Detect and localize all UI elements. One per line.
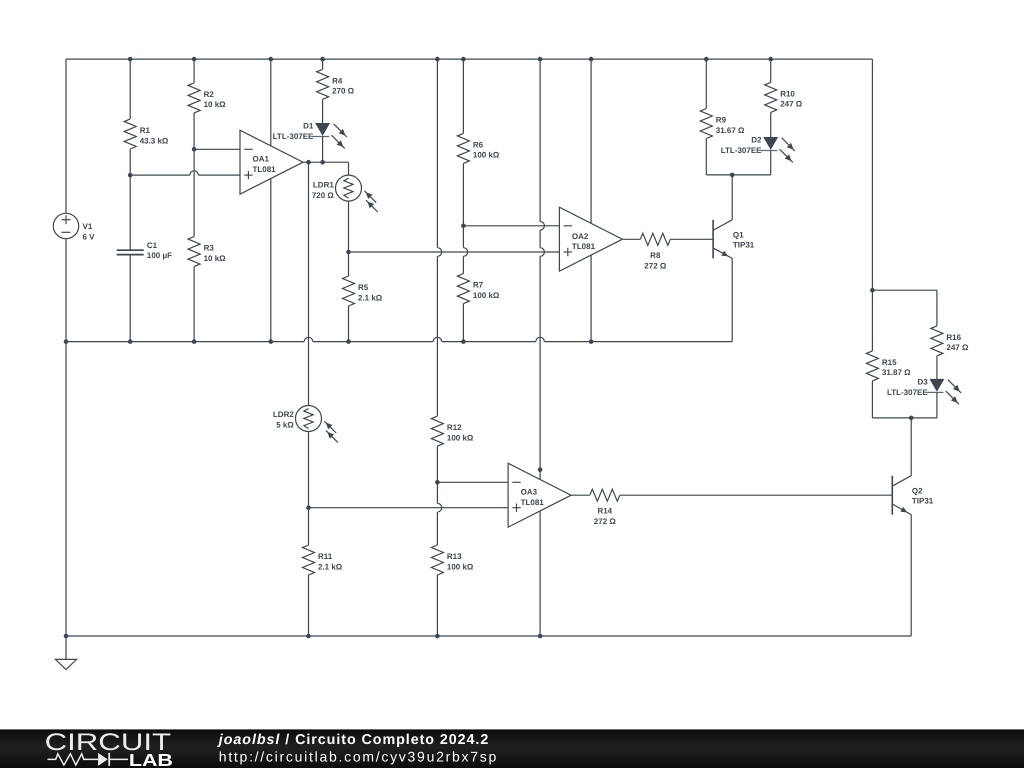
wire c7 hop over OA3 plus wire	[437, 503, 441, 512]
wire hop over R2R3 column	[190, 171, 199, 175]
svg-text:R16: R16	[946, 333, 961, 342]
wire OA3 inverting input	[437, 481, 508, 483]
wire mid rail segment 3	[442, 341, 536, 343]
resistor R4	[317, 69, 329, 99]
OA2 noninverting glyph	[564, 251, 572, 253]
svg-text:R8: R8	[650, 251, 661, 260]
wire mid rail segment 2	[313, 341, 433, 343]
wire hop over node at x308	[304, 337, 313, 341]
node R6-R7 junction	[461, 224, 466, 229]
svg-text:Q2: Q2	[912, 486, 923, 495]
svg-text:100 µF: 100 µF	[147, 251, 172, 260]
resistor R11	[303, 545, 315, 575]
wire C1 bottom lead	[129, 255, 131, 342]
wire R2-R3 link	[193, 113, 195, 237]
OA3 noninverting glyph	[512, 507, 520, 509]
wire c9 hop over OA2 minus wire	[540, 222, 544, 231]
OA2 inverting glyph	[564, 225, 572, 227]
wire OA1 noninverting input seg2	[198, 174, 240, 176]
svg-text:R10: R10	[780, 89, 795, 98]
node top rail R1	[128, 57, 133, 62]
wire R15-R16 top link	[872, 289, 937, 291]
resistor R9	[700, 109, 712, 139]
svg-text:R4: R4	[332, 76, 343, 85]
wire D3 cathode lead	[936, 392, 938, 418]
resistor R3	[188, 237, 200, 267]
photoresistor LDR2	[296, 406, 322, 432]
node OA2 supply bottom junction	[589, 339, 594, 344]
wire c8 hop over OA2 plus wire	[463, 248, 467, 257]
node top rail R10	[768, 57, 773, 62]
wire c7 to R12	[436, 256, 438, 416]
LDR2 light arrows	[324, 421, 336, 433]
wire R6R7 link upper	[462, 226, 464, 248]
svg-text:10 kΩ: 10 kΩ	[204, 100, 227, 109]
node mid rail left	[64, 339, 69, 344]
LED D3	[930, 379, 943, 390]
node c9 bottom junction	[538, 634, 543, 639]
V1 minus symbol	[62, 231, 71, 233]
op-amp OA3	[508, 463, 571, 527]
svg-text:720 Ω: 720 Ω	[312, 191, 335, 200]
OA3 inverting glyph	[512, 481, 520, 483]
node Q2 collector junction	[909, 416, 914, 421]
wire c9 segment 2	[539, 230, 541, 248]
node top rail c9	[538, 57, 543, 62]
V1 plus symbol	[62, 219, 71, 221]
D2 label leader	[760, 150, 764, 152]
resistor R12	[431, 416, 443, 446]
node R11 bottom junction	[306, 634, 311, 639]
wire OA2 noninverting input	[349, 251, 560, 253]
node bottom rail left	[64, 634, 69, 639]
wire R1 bottom lead	[129, 149, 131, 175]
svg-text:LDR1: LDR1	[313, 181, 334, 190]
svg-text:TIP31: TIP31	[733, 241, 755, 250]
D3 label leader	[927, 391, 931, 393]
wire OA3 noninverting input	[309, 507, 509, 509]
ground symbol	[55, 659, 76, 669]
svg-text:D2: D2	[751, 136, 762, 145]
svg-text:R2: R2	[204, 90, 215, 99]
wire R6 bottom lead	[462, 163, 464, 225]
LDR1 light arrows	[364, 191, 376, 203]
D3 emission arrows	[948, 380, 961, 393]
wire hop over node at x437	[433, 337, 442, 341]
svg-text:R7: R7	[473, 281, 484, 290]
svg-text:OA3: OA3	[521, 488, 538, 497]
wire column c7 upper	[436, 59, 438, 248]
wire mid rail segment 1	[66, 341, 304, 343]
svg-text:R12: R12	[447, 423, 462, 432]
logo diode bar	[108, 753, 110, 766]
svg-text:LTL-307EE: LTL-307EE	[887, 388, 928, 397]
node R2-R3 junction	[192, 147, 197, 152]
wire R9-D2 bottom	[706, 174, 770, 176]
wire R3 bottom lead	[193, 267, 195, 342]
svg-text:100 kΩ: 100 kΩ	[447, 433, 474, 442]
svg-text:V1: V1	[83, 222, 93, 231]
wire LDR2 bottom lead	[308, 432, 310, 546]
wire top supply rail	[66, 58, 872, 60]
D1 label leader	[312, 136, 316, 138]
wire R2 top lead	[193, 59, 195, 83]
resistor R13	[431, 545, 443, 575]
resistor R2	[188, 83, 200, 113]
wire right rail down	[871, 59, 873, 351]
wire OA1 output down segment	[308, 162, 310, 405]
wire R4 top lead	[322, 59, 324, 69]
wire D1 cathode lead	[322, 136, 324, 162]
svg-text:D3: D3	[917, 378, 928, 387]
svg-text:247 Ω: 247 Ω	[946, 343, 969, 352]
svg-text:http://circuitlab.com/cyv39u2r: http://circuitlab.com/cyv39u2rbx7sp	[219, 749, 497, 765]
svg-text:LTL-307EE: LTL-307EE	[721, 146, 762, 155]
wire R12-junction link	[436, 446, 438, 503]
photoresistor LDR1	[336, 175, 362, 201]
wire R15 bottom lead	[871, 381, 873, 418]
wire OA2 supply column	[590, 59, 592, 342]
wire R1 top lead	[129, 59, 131, 119]
D1 emission arrows	[334, 124, 347, 137]
wire R4-D1 link	[322, 99, 324, 123]
wire c9 segment 1	[539, 59, 541, 221]
Q1 emitter diagonal	[714, 248, 732, 258]
node mid rail R1C1	[128, 339, 133, 344]
node R7 bottom junction	[461, 339, 466, 344]
wire OA1 output	[303, 161, 349, 163]
svg-text:31.87 Ω: 31.87 Ω	[882, 368, 911, 377]
wire OA1 inverting input	[194, 148, 240, 150]
voltage source V1	[53, 213, 78, 238]
wire R16-D3 link	[936, 356, 938, 380]
wire bottom ground rail	[66, 635, 911, 637]
Q2 emitter diagonal	[893, 504, 911, 514]
svg-text:100 kΩ: 100 kΩ	[447, 562, 474, 571]
wire OA1 supply column	[270, 59, 272, 342]
svg-text:10 kΩ: 10 kΩ	[204, 254, 227, 263]
svg-text:43.3 kΩ: 43.3 kΩ	[140, 136, 169, 145]
svg-text:R9: R9	[716, 116, 727, 125]
svg-text:OA1: OA1	[253, 155, 270, 164]
svg-text:D1: D1	[303, 122, 314, 131]
wire R13 bottom lead	[436, 575, 438, 636]
svg-text:R15: R15	[882, 358, 897, 367]
resistor R8	[640, 233, 670, 245]
resistor R14	[590, 489, 620, 501]
Q2 collector diagonal	[893, 476, 911, 486]
wire c7 hop over OA2 plus wire	[437, 248, 441, 257]
svg-text:joaolbsl / Circuito Completo 2: joaolbsl / Circuito Completo 2024.2	[217, 732, 489, 748]
svg-text:LTL-307EE: LTL-307EE	[273, 132, 314, 141]
svg-text:R13: R13	[447, 552, 462, 561]
svg-text:272 Ω: 272 Ω	[594, 517, 617, 526]
wire R7 bottom lead	[462, 304, 464, 342]
wire OA2 inverting input	[463, 225, 559, 227]
node R1-C1 junction	[128, 173, 133, 178]
node D1 cathode junction	[320, 160, 325, 165]
svg-text:270 Ω: 270 Ω	[332, 87, 355, 96]
node R5 bottom junction	[346, 339, 351, 344]
svg-text:R14: R14	[597, 507, 612, 516]
node LDR1-R5 junction	[346, 250, 351, 255]
node Q1 collector junction	[730, 173, 735, 178]
wire C1 top lead	[129, 175, 131, 250]
wire OA1 noninverting input seg1	[130, 174, 190, 176]
resistor R5	[343, 276, 355, 306]
svg-text:100 kΩ: 100 kΩ	[473, 151, 500, 160]
svg-text:R11: R11	[318, 552, 333, 561]
footer bar	[0, 729, 1024, 768]
OA1 inverting glyph	[244, 148, 252, 150]
svg-text:TIP31: TIP31	[912, 497, 934, 506]
node top rail c7	[435, 57, 440, 62]
resistor R10	[765, 82, 777, 112]
op-amp OA2	[559, 207, 622, 271]
node mid rail OA1 supply	[269, 339, 274, 344]
wire c7 to R13	[436, 512, 438, 545]
node R15 top junction	[870, 288, 875, 293]
LED D2	[764, 138, 777, 149]
wire R6 top lead	[462, 59, 464, 133]
wire hop over node at x540	[536, 337, 545, 341]
wire R10 top lead	[770, 59, 772, 82]
wire mid rail segment 4	[544, 341, 732, 343]
svg-text:272 Ω: 272 Ω	[644, 262, 667, 271]
D2 emission arrows	[782, 138, 795, 151]
OA1 noninverting glyph	[244, 174, 252, 176]
node top rail OA2 supply	[589, 57, 594, 62]
wire R6R7 link lower	[462, 256, 464, 273]
logo diode lead	[109, 758, 128, 760]
wire LDR1-R5 link	[348, 201, 350, 276]
wire R8 to Q1 base	[670, 238, 713, 240]
wire c9 hop over OA2 plus wire	[540, 248, 544, 257]
wire ground stub	[65, 636, 67, 659]
wire R5 bottom lead	[348, 306, 350, 342]
svg-text:Q1: Q1	[733, 230, 744, 239]
resistor R16	[931, 326, 943, 356]
svg-text:C1: C1	[147, 241, 158, 250]
resistor R6	[457, 133, 469, 163]
svg-text:TL081: TL081	[572, 242, 596, 251]
wire LDR1 top lead	[348, 162, 350, 175]
node R13 bottom junction	[435, 634, 440, 639]
wire R11 bottom lead	[308, 575, 310, 636]
wire D3 bottom	[872, 417, 937, 419]
node top rail R4	[320, 57, 325, 62]
LED D1	[316, 124, 329, 135]
transistor Q2 base bar	[891, 476, 893, 515]
svg-text:LAB: LAB	[129, 750, 173, 768]
wire R10-D2 link	[770, 112, 772, 137]
wire OA2 output lead	[623, 238, 640, 240]
wire Q1 emitter down	[731, 258, 733, 341]
svg-text:247 Ω: 247 Ω	[780, 100, 803, 109]
transistor Q1 base bar	[712, 220, 714, 259]
svg-text:LDR2: LDR2	[273, 410, 294, 419]
node top rail OA1 supply	[269, 57, 274, 62]
wire Q2 collector up	[910, 418, 912, 476]
svg-text:2.1 kΩ: 2.1 kΩ	[318, 562, 343, 571]
svg-text:OA2: OA2	[572, 232, 589, 241]
svg-text:5 kΩ: 5 kΩ	[276, 421, 294, 430]
node top rail R9	[704, 57, 709, 62]
svg-text:TL081: TL081	[253, 165, 277, 174]
Q1 collector diagonal	[714, 220, 732, 230]
svg-text:100 kΩ: 100 kΩ	[473, 291, 500, 300]
node R12-R13 junction	[435, 480, 440, 485]
logo schematic squiggle	[48, 754, 99, 765]
node top rail R6	[461, 57, 466, 62]
node OA1 output to LDR2 column	[306, 160, 311, 165]
svg-text:R5: R5	[358, 283, 369, 292]
wire Q2 emitter down	[910, 515, 912, 636]
svg-text:31.67 Ω: 31.67 Ω	[716, 126, 745, 135]
svg-text:R1: R1	[140, 126, 151, 135]
resistor R7	[457, 274, 469, 304]
wire D2 cathode lead	[770, 150, 772, 175]
resistor R1	[124, 119, 136, 149]
wire OA3 output lead	[571, 494, 589, 496]
svg-text:R6: R6	[473, 140, 484, 149]
wire R16 top lead	[936, 290, 938, 326]
wire Q1 collector up	[731, 175, 733, 220]
capacitor C1	[117, 249, 144, 251]
wire left rail upper	[65, 59, 67, 213]
op-amp OA1	[240, 130, 303, 194]
svg-text:TL081: TL081	[521, 498, 545, 507]
svg-text:2.1 kΩ: 2.1 kΩ	[358, 293, 383, 302]
node mid rail R3	[192, 339, 197, 344]
resistor R15	[866, 351, 878, 381]
svg-text:R3: R3	[204, 244, 215, 253]
node OA3 supply pin junction	[538, 467, 543, 472]
node LDR2-R11 junction	[306, 505, 311, 510]
logo diode	[98, 753, 108, 766]
wire left rail lower	[65, 239, 67, 636]
wire c9 segment 3	[539, 256, 541, 636]
svg-text:6 V: 6 V	[83, 233, 96, 242]
wire R9 bottom lead	[705, 139, 707, 175]
wire R14 to Q2 base	[620, 494, 893, 496]
wire R9 top lead	[705, 59, 707, 108]
node top rail R2	[192, 57, 197, 62]
